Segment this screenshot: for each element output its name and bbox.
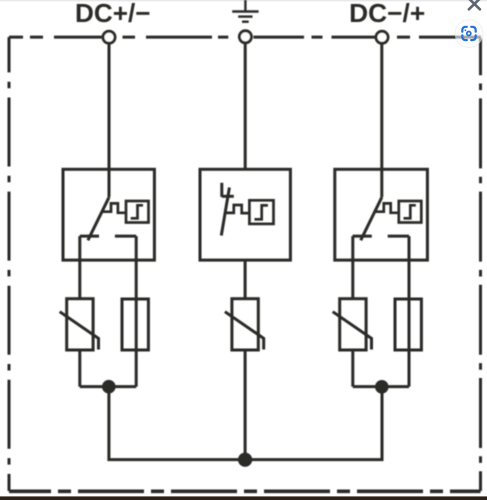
lens button background	[455, 20, 483, 48]
varistor RV1	[60, 299, 99, 350]
bottom viewer edge bar	[0, 496, 487, 500]
trip linkage U1	[103, 203, 127, 212]
wire left box through fuse F1 to node A	[135, 236, 138, 387]
fuse F2	[395, 299, 421, 350]
switch contact bar U3	[353, 235, 409, 238]
wire node B down	[245, 387, 382, 460]
wire left box to varistor RV1	[78, 236, 81, 299]
top viewer edge band	[0, 0, 487, 1]
wire middle box to varistor RV2	[244, 260, 247, 299]
step symbol U1	[131, 205, 143, 218]
disconnect device box U1	[63, 169, 154, 260]
trip linkage U3	[375, 203, 399, 212]
svg-text:DC−/+: DC−/+	[349, 0, 425, 28]
disconnect device box U2 (middle)	[200, 169, 290, 260]
node B bus	[353, 385, 409, 388]
node C junction dot	[238, 453, 252, 467]
step symbol U2	[255, 205, 268, 219]
node A junction dot	[102, 380, 116, 394]
step symbol U3	[404, 205, 416, 218]
wire right box to varistor RV3	[351, 236, 354, 299]
switch blade U1	[88, 197, 109, 240]
wire varistor RV2 to node C	[244, 350, 247, 460]
node B junction dot	[375, 380, 389, 394]
varistor RV2	[225, 299, 264, 350]
enclosure border bottom side	[9, 489, 481, 493]
varistor RV3	[333, 299, 372, 350]
trip indicator box U1	[126, 201, 149, 223]
enclosure border top side	[9, 36, 481, 39]
terminal X1	[103, 31, 115, 43]
terminal X3	[376, 31, 388, 43]
close button	[469, 0, 480, 9]
enclosure border left side	[8, 37, 11, 491]
svg-text:DC+/−: DC+/−	[75, 0, 151, 28]
wire varistor RV3 to node B	[351, 350, 354, 387]
trip indicator box U2	[249, 200, 273, 224]
disconnector blade U2	[221, 188, 229, 236]
trip linkage U2	[225, 205, 250, 213]
switch blade U3	[361, 197, 382, 240]
wire T3 to right box switch	[380, 44, 383, 198]
fuse F1	[122, 299, 148, 350]
node A bus	[80, 385, 136, 388]
trip indicator box U3	[399, 201, 422, 223]
wire node A down	[109, 387, 245, 460]
wire T1 to left box switch	[108, 44, 111, 198]
disconnector stem U2	[220, 183, 223, 197]
wire varistor RV1 to node A	[78, 350, 81, 387]
disconnect device box U3	[335, 169, 428, 260]
ground	[232, 0, 258, 22]
wire right box through fuse F2 to node B	[408, 236, 411, 387]
switch contact bar U1	[80, 235, 136, 238]
enclosure border right side	[479, 38, 482, 491]
disconnector bar U2	[222, 195, 234, 198]
terminal X2	[239, 31, 251, 43]
lens icon	[462, 27, 475, 40]
wire T2 to middle box	[244, 43, 247, 169]
